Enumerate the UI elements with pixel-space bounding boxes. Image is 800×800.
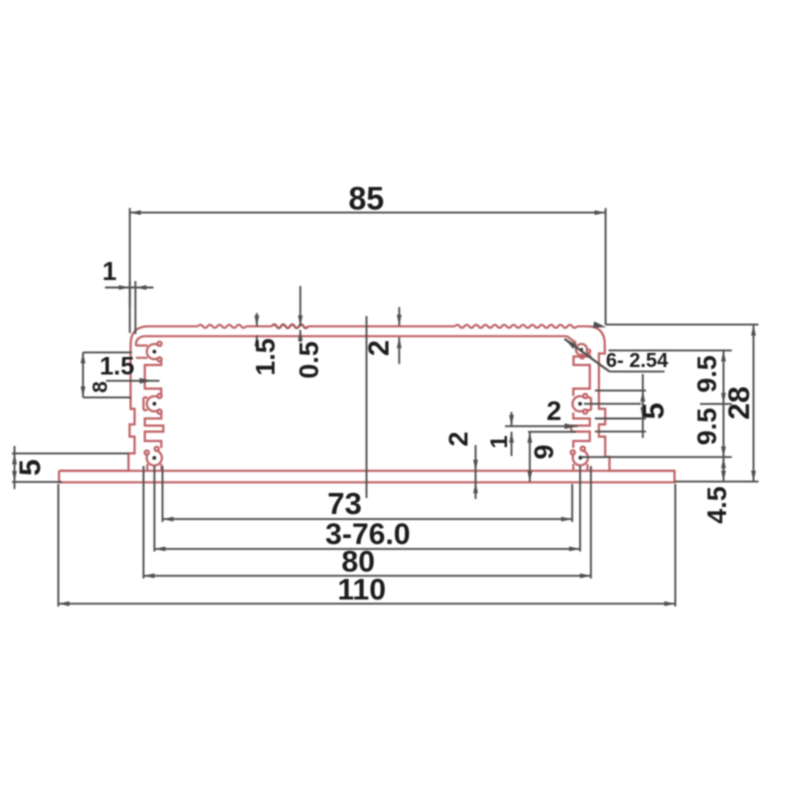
screw boss B2 horn lower — [157, 410, 161, 414]
dimension 1 mid row b — [528, 431, 576, 433]
corner chamfer upper segment — [567, 336, 576, 343]
screw boss B2R horn lower — [583, 410, 587, 414]
right chain ext row bottom — [675, 481, 759, 483]
dimension 110 arrow left — [58, 601, 69, 606]
dimension 5 right line — [642, 374, 644, 438]
dimension 110 line — [58, 603, 675, 605]
screw boss B1 horn upper — [157, 342, 161, 346]
dimension 2 bottom arrow lower — [473, 482, 478, 493]
dimension 2 mid text — [546, 396, 561, 426]
chamfer mini boss horn b — [587, 350, 591, 354]
screw boss B2R neck — [587, 398, 591, 411]
dimension 4.5 text — [702, 486, 732, 524]
ext line 76 left — [153, 466, 155, 552]
svg-text:9.5: 9.5 — [692, 408, 722, 446]
screw boss B3 horn right — [155, 447, 159, 451]
right chain ext row mid a — [584, 403, 641, 405]
ext line 80 right — [590, 466, 592, 579]
dimension 8 arrow top — [81, 352, 86, 363]
right chain ext row boss3 — [581, 456, 732, 458]
dimension 2 top ext — [398, 307, 400, 326]
dimension 1 text — [102, 256, 116, 286]
dimension 8 ext top — [83, 351, 132, 353]
dimension 2 mid line — [505, 425, 578, 427]
bottom slab inner surface — [59, 470, 675, 472]
dimension 5 left arrow top — [12, 453, 17, 464]
dimension 1 line — [105, 287, 154, 289]
lid outer surface serrated segment right — [455, 325, 577, 328]
callout 6-2.54 leader — [565, 339, 610, 372]
dimension 1 arrow right — [135, 285, 146, 290]
dimension 73 arrow left — [163, 517, 174, 522]
corner chamfer lower segment — [587, 353, 591, 356]
dimension 8 line — [82, 352, 84, 397]
callout 6-2.54 text — [606, 350, 669, 372]
profile outer shell right wall and flange — [59, 326, 675, 482]
profile outer shell left wall and flange — [59, 326, 198, 471]
dimension 3-76.0 arrow right — [569, 547, 580, 552]
dimension 2 bottom text — [444, 431, 474, 446]
dimension 9.5b arrow bottom — [721, 446, 726, 457]
svg-text:110: 110 — [337, 574, 385, 607]
dimension 4.5 arrow top — [721, 457, 726, 468]
dimension 110 arrow right — [664, 601, 675, 606]
dimension 28 arrow top — [751, 325, 756, 336]
screw boss B2 horn upper — [157, 394, 161, 398]
dimension 4.5 line — [723, 457, 725, 481]
screw boss B3 body — [147, 451, 162, 466]
dimension 80 line — [144, 575, 591, 577]
dimension 9.5a text — [692, 355, 722, 393]
dimension 110 text — [337, 574, 385, 607]
dimension 9.5a arrow top — [721, 350, 726, 361]
right chain ext row mid b — [700, 403, 732, 405]
dimension 1.5 left line — [106, 380, 160, 382]
dimension 9.5b text — [692, 408, 722, 446]
dimension 2 top text — [364, 340, 396, 356]
callout 6-2.54 underline — [610, 371, 665, 373]
dimension 1 mid arrow upper — [509, 415, 514, 426]
dimension 1 mid lower seg — [511, 432, 513, 456]
dimension 5 right ext top — [595, 390, 646, 392]
dimension 1 mid text — [486, 435, 513, 448]
screw boss B2 body — [147, 396, 159, 411]
svg-text:2: 2 — [444, 431, 474, 446]
dimension 9.5a line — [723, 350, 725, 404]
dimension 2 top lower seg — [398, 337, 400, 364]
svg-text:1: 1 — [486, 435, 513, 448]
dimension 28 text — [723, 386, 756, 419]
dimension 85 text — [349, 181, 385, 217]
inner top-left corner — [136, 336, 145, 346]
dimension 0.5 top text — [294, 341, 324, 379]
screw boss B1 center mark — [153, 350, 157, 354]
svg-text:5: 5 — [14, 459, 47, 476]
dimension 3-76.0 text — [325, 518, 410, 551]
dimension 9 arrow top — [527, 432, 532, 443]
chamfer mini boss center mark — [580, 348, 583, 351]
svg-text:73: 73 — [327, 486, 361, 521]
screw boss B2R horn upper — [583, 394, 587, 398]
dimension 1 mid arrow lower — [509, 432, 514, 443]
dimension 2 bottom line — [475, 445, 477, 499]
svg-text:9.5: 9.5 — [692, 355, 722, 393]
right wall inner recess lower — [571, 413, 590, 449]
dimension 1.5 top ext — [256, 313, 258, 326]
ext line 80 left — [143, 466, 145, 579]
dimension 5 right text — [638, 403, 671, 420]
dimension 85 arrow left — [130, 210, 141, 215]
dimension 0.5 top ext — [299, 286, 301, 326]
dimension 1.5 left text — [100, 353, 135, 381]
dimension 28 arrow bottom — [751, 471, 756, 482]
dimension 0.5 top lower seg — [299, 330, 301, 342]
ext line 73 left — [162, 466, 164, 522]
svg-text:9: 9 — [529, 444, 559, 459]
screw boss B3 horn left — [145, 451, 149, 455]
screw boss B3R center mark — [579, 456, 583, 460]
dimension 85 ext left — [129, 208, 131, 307]
dimension 9 line — [529, 432, 531, 482]
dimension 2 top arrow lower — [397, 337, 402, 348]
dimension 5 left arrow bottom — [12, 471, 17, 482]
centre construction line — [366, 316, 368, 498]
left wall inner recess upper — [145, 360, 161, 397]
dimension 5 left text — [14, 459, 47, 476]
dimension 0.5 top arrow lower — [298, 330, 303, 341]
screw boss B1 neck — [136, 346, 148, 358]
corner chamfer mini boss — [576, 344, 587, 355]
svg-text:8: 8 — [89, 381, 112, 393]
lid inner surface — [145, 335, 567, 337]
dimension 28 line — [753, 325, 755, 482]
screw boss B2 neck — [144, 398, 148, 411]
dimension 80 text — [342, 546, 375, 579]
dimension 85 arrow right — [595, 210, 606, 215]
lid outer surface plain middle — [312, 325, 455, 327]
dimension 8 text — [89, 381, 112, 393]
screw boss B3R body — [573, 450, 588, 465]
dimension 0.5 top arrow upper — [298, 315, 303, 326]
dimension 1.5 top arrow upper — [254, 315, 259, 326]
dimension 9 arrow bottom — [527, 471, 532, 482]
dimension 73 line — [163, 518, 573, 520]
screw boss B3R horn left — [571, 450, 575, 454]
right ledge ext row — [595, 431, 646, 433]
svg-text:4.5: 4.5 — [702, 486, 732, 524]
dimension 5 left ext top — [12, 452, 129, 454]
ext line 73 right — [571, 484, 573, 522]
ext line 110 right — [674, 484, 676, 607]
ext line 76 right — [579, 466, 581, 552]
dimension 1.5 top arrow lower — [254, 335, 259, 346]
dimension 1 ext b — [134, 281, 136, 334]
ext line 110 left — [57, 484, 59, 607]
dimension 4.5 arrow bottom — [721, 471, 726, 482]
svg-text:1.5: 1.5 — [100, 353, 135, 381]
dimension 5 right arrow top — [640, 391, 645, 402]
svg-text:2: 2 — [546, 396, 561, 426]
right wall inner recess upper shape — [573, 357, 590, 397]
screw boss B1 horn lower — [157, 357, 161, 361]
lid outer surface plain gap — [246, 325, 272, 327]
svg-text:2: 2 — [364, 340, 396, 356]
dimension 80 arrow right — [580, 573, 591, 578]
svg-text:6- 2.54: 6- 2.54 — [606, 350, 669, 372]
chamfer mini boss horn a — [580, 355, 584, 359]
dimension 1.5 left arrow — [140, 378, 153, 384]
dimension 9.5a arrow bottom — [721, 393, 726, 404]
dimension 1 arrow left — [119, 285, 130, 290]
dimension 1 mid upper seg — [511, 412, 513, 426]
screw boss B2R center mark — [578, 402, 582, 406]
dimension 1 ext a — [129, 281, 131, 333]
dimension 2 bottom arrow upper — [473, 460, 478, 471]
corner reference arrow — [593, 321, 606, 327]
right foot sides — [573, 464, 587, 471]
dimension 2 mid arrow — [565, 423, 578, 429]
dimension 8 arrow bottom — [81, 386, 86, 397]
svg-text:1.5: 1.5 — [251, 338, 281, 376]
dimension 80 arrow left — [144, 573, 155, 578]
callout 6-2.54 arrow — [565, 339, 577, 349]
dimension 3-76.0 arrow left — [154, 547, 165, 552]
dimension 5 left line — [14, 446, 16, 489]
svg-text:85: 85 — [349, 181, 385, 217]
dimension 1.5 top lower seg — [256, 335, 258, 348]
dimension 5 left ext bottom — [12, 481, 62, 483]
dimension 1.5 top text — [251, 338, 281, 376]
svg-text:1: 1 — [102, 256, 116, 286]
svg-text:5: 5 — [638, 403, 671, 420]
svg-text:0.5: 0.5 — [294, 341, 324, 379]
screw boss B2 center mark — [153, 402, 157, 406]
screw boss B1 body — [147, 344, 159, 359]
dimension 3-76.0 line — [154, 548, 580, 550]
dimension 9 text — [529, 444, 559, 459]
dimension 5 right ext bottom — [595, 418, 646, 420]
lid outer surface serrated segment left b — [272, 325, 308, 329]
screw boss B2R body — [573, 396, 585, 411]
dimension 5 right arrow bottom — [640, 408, 645, 419]
dimension 85 line — [130, 212, 606, 214]
lid outer surface serrated segment left a — [198, 325, 246, 328]
right chain ext row top — [609, 349, 732, 351]
screw boss B3 center mark — [152, 456, 156, 460]
top ext row for 28 — [606, 324, 759, 326]
dimension 8 ext bottom — [83, 396, 131, 398]
dimension 9.5b line — [723, 404, 725, 458]
lid outer surface plain gap b — [308, 325, 312, 327]
dimension 85 ext right — [605, 208, 607, 325]
left foot sides — [147, 464, 161, 471]
dimension 73 text — [327, 486, 361, 521]
dimension 73 arrow right — [561, 517, 572, 522]
svg-text:28: 28 — [723, 386, 756, 419]
left wall inner recess lower — [145, 413, 164, 449]
dimension 2 top arrow upper — [397, 315, 402, 326]
screw boss B3R horn right — [581, 447, 585, 451]
